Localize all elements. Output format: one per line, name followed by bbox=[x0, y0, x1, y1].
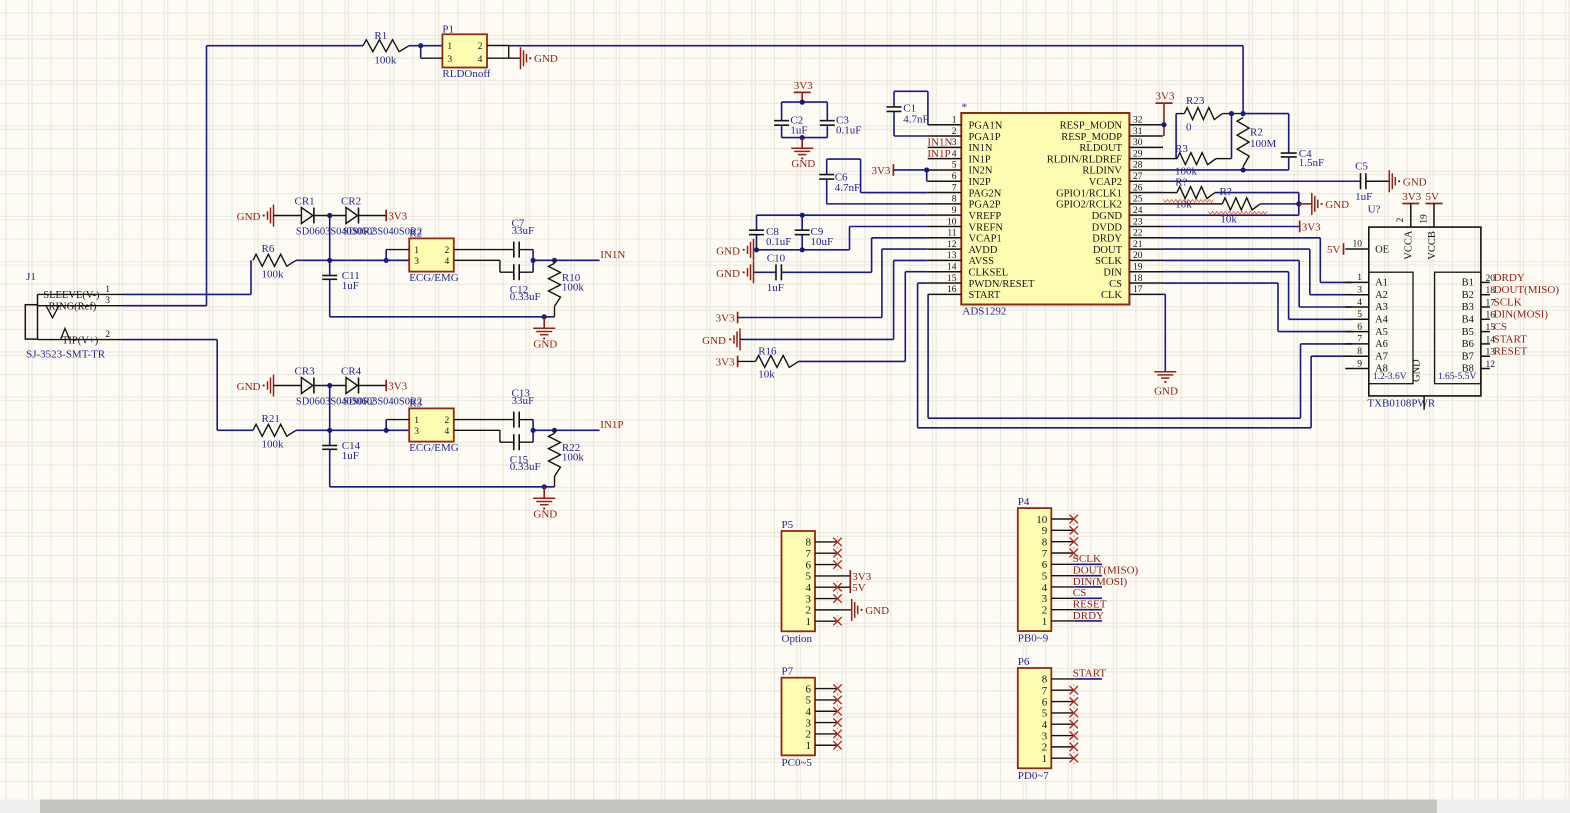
svg-text:A2: A2 bbox=[1375, 290, 1388, 301]
svg-text:6: 6 bbox=[952, 172, 957, 182]
svg-text:R3: R3 bbox=[1175, 143, 1188, 155]
svg-text:A7: A7 bbox=[1375, 351, 1388, 362]
svg-text:7: 7 bbox=[806, 548, 812, 560]
svg-text:3: 3 bbox=[1042, 730, 1048, 742]
svg-text:SLEEVE(V-): SLEEVE(V-) bbox=[43, 290, 100, 301]
svg-text:3V3: 3V3 bbox=[388, 381, 407, 393]
svg-text:A4: A4 bbox=[1375, 315, 1389, 326]
svg-text:33uF: 33uF bbox=[512, 225, 535, 237]
svg-text:R3: R3 bbox=[409, 398, 422, 410]
svg-text:RING(Ref): RING(Ref) bbox=[49, 301, 97, 312]
svg-text:DOUT(MISO): DOUT(MISO) bbox=[1073, 564, 1139, 576]
svg-text:3: 3 bbox=[1042, 593, 1048, 605]
svg-text:3V3: 3V3 bbox=[388, 211, 407, 223]
svg-text:ECG/EMG: ECG/EMG bbox=[409, 442, 459, 454]
svg-text:1uF: 1uF bbox=[342, 450, 359, 462]
svg-text:10k: 10k bbox=[758, 368, 775, 380]
svg-text:START: START bbox=[969, 290, 1001, 301]
svg-text:GND: GND bbox=[237, 211, 261, 223]
svg-text:29: 29 bbox=[1133, 149, 1143, 159]
svg-text:2: 2 bbox=[806, 605, 812, 617]
svg-text:6: 6 bbox=[806, 683, 812, 695]
svg-text:PGA2P: PGA2P bbox=[969, 200, 1001, 211]
svg-text:R23: R23 bbox=[1186, 95, 1205, 107]
svg-text:4: 4 bbox=[444, 427, 449, 437]
svg-text:R6: R6 bbox=[262, 243, 275, 255]
svg-text:5V: 5V bbox=[1327, 244, 1341, 256]
svg-text:1: 1 bbox=[1042, 616, 1048, 628]
svg-text:P4: P4 bbox=[1018, 496, 1030, 508]
svg-text:R21: R21 bbox=[262, 413, 280, 425]
svg-text:17: 17 bbox=[1133, 285, 1143, 295]
svg-text:3: 3 bbox=[414, 427, 419, 437]
svg-text:DRDY: DRDY bbox=[1494, 272, 1525, 284]
svg-text:C10: C10 bbox=[767, 253, 786, 265]
svg-text:1uF: 1uF bbox=[1355, 191, 1372, 203]
svg-text:6: 6 bbox=[1042, 696, 1048, 708]
svg-text:9: 9 bbox=[1357, 359, 1362, 369]
svg-text:R?: R? bbox=[1220, 186, 1232, 198]
svg-text:1: 1 bbox=[414, 246, 419, 256]
svg-text:VCCA: VCCA bbox=[1404, 230, 1415, 260]
svg-text:3: 3 bbox=[1357, 286, 1362, 296]
svg-text:IN1P: IN1P bbox=[927, 148, 950, 160]
svg-text:4: 4 bbox=[806, 582, 812, 594]
svg-text:7: 7 bbox=[1042, 548, 1048, 560]
svg-text:A8: A8 bbox=[1375, 364, 1388, 375]
svg-text:GPIO1/RCLK1: GPIO1/RCLK1 bbox=[1056, 188, 1122, 199]
svg-text:28: 28 bbox=[1133, 161, 1143, 171]
svg-text:B2: B2 bbox=[1462, 290, 1474, 301]
svg-text:4.7nF: 4.7nF bbox=[903, 113, 928, 125]
svg-text:6: 6 bbox=[1042, 559, 1048, 571]
svg-text:21: 21 bbox=[1133, 240, 1143, 250]
svg-text:1: 1 bbox=[952, 116, 957, 126]
svg-text:*: * bbox=[962, 102, 968, 114]
svg-text:Option: Option bbox=[782, 633, 813, 645]
svg-text:1uF: 1uF bbox=[790, 124, 807, 136]
svg-text:3V3: 3V3 bbox=[716, 356, 735, 368]
svg-text:3: 3 bbox=[105, 296, 110, 306]
svg-text:2: 2 bbox=[1042, 742, 1048, 754]
svg-text:VCAP1: VCAP1 bbox=[969, 234, 1002, 245]
svg-text:2: 2 bbox=[478, 42, 483, 52]
svg-text:SCLK: SCLK bbox=[1494, 296, 1522, 308]
svg-text:3V3: 3V3 bbox=[1402, 191, 1421, 203]
svg-text:ADS1292: ADS1292 bbox=[962, 306, 1006, 318]
svg-text:9: 9 bbox=[1042, 525, 1048, 537]
svg-text:22: 22 bbox=[1133, 229, 1143, 239]
svg-text:CR1: CR1 bbox=[295, 195, 315, 207]
svg-text:27: 27 bbox=[1133, 172, 1143, 182]
svg-text:33uF: 33uF bbox=[512, 395, 535, 407]
svg-text:1uF: 1uF bbox=[767, 282, 784, 294]
svg-text:GPIO2/RCLK2: GPIO2/RCLK2 bbox=[1056, 200, 1122, 211]
svg-text:1.5nF: 1.5nF bbox=[1299, 157, 1324, 169]
svg-text:DVDD: DVDD bbox=[1092, 222, 1123, 233]
svg-text:DRDY: DRDY bbox=[1092, 234, 1122, 245]
svg-text:4: 4 bbox=[806, 706, 812, 718]
svg-text:C5: C5 bbox=[1355, 161, 1368, 173]
svg-text:24: 24 bbox=[1133, 206, 1143, 216]
svg-text:1uF: 1uF bbox=[342, 280, 359, 292]
svg-text:DIN: DIN bbox=[1103, 268, 1122, 279]
svg-text:9: 9 bbox=[952, 206, 957, 216]
svg-text:SCLK: SCLK bbox=[1095, 256, 1122, 267]
svg-text:6: 6 bbox=[806, 559, 812, 571]
svg-text:TIP(V+): TIP(V+) bbox=[62, 335, 99, 346]
svg-text:8: 8 bbox=[1042, 674, 1048, 686]
svg-text:12: 12 bbox=[947, 240, 957, 250]
svg-text:20: 20 bbox=[1133, 251, 1143, 261]
svg-text:5: 5 bbox=[806, 571, 812, 583]
svg-text:3V3: 3V3 bbox=[852, 571, 871, 583]
svg-text:4.7nF: 4.7nF bbox=[835, 182, 860, 194]
svg-text:8: 8 bbox=[1042, 536, 1048, 548]
svg-text:CS: CS bbox=[1073, 587, 1086, 599]
svg-text:B4: B4 bbox=[1462, 315, 1475, 326]
svg-text:3: 3 bbox=[447, 55, 452, 65]
svg-text:RLDIN/RLDREF: RLDIN/RLDREF bbox=[1047, 154, 1122, 165]
svg-text:15: 15 bbox=[947, 274, 957, 284]
svg-text:PAG2N: PAG2N bbox=[969, 188, 1002, 199]
svg-text:1: 1 bbox=[806, 616, 812, 628]
svg-text:8: 8 bbox=[1357, 347, 1362, 357]
svg-text:AVDD: AVDD bbox=[969, 245, 998, 256]
svg-text:IN1P: IN1P bbox=[600, 419, 623, 431]
svg-text:0: 0 bbox=[1186, 122, 1192, 134]
svg-text:IN1N: IN1N bbox=[927, 137, 952, 149]
svg-text:R2: R2 bbox=[409, 228, 422, 240]
svg-text:B6: B6 bbox=[1462, 339, 1474, 350]
svg-text:18: 18 bbox=[1133, 274, 1143, 284]
svg-text:4: 4 bbox=[1042, 582, 1048, 594]
svg-text:B8: B8 bbox=[1462, 364, 1474, 375]
svg-text:1: 1 bbox=[105, 285, 110, 295]
svg-text:TXB0108PWR: TXB0108PWR bbox=[1367, 397, 1436, 409]
svg-text:RESET: RESET bbox=[1494, 346, 1528, 358]
svg-text:100k: 100k bbox=[562, 452, 585, 464]
svg-text:4: 4 bbox=[952, 149, 957, 159]
svg-text:8: 8 bbox=[806, 537, 812, 549]
svg-text:DIN(MOSI): DIN(MOSI) bbox=[1073, 576, 1128, 588]
svg-text:GND: GND bbox=[1325, 199, 1349, 211]
svg-text:30: 30 bbox=[1133, 138, 1143, 148]
svg-text:AVSS: AVSS bbox=[969, 256, 995, 267]
svg-text:PGA1P: PGA1P bbox=[969, 132, 1001, 143]
svg-text:4: 4 bbox=[1357, 298, 1362, 308]
svg-text:A5: A5 bbox=[1375, 327, 1388, 338]
svg-text:A6: A6 bbox=[1375, 339, 1388, 350]
svg-text:1: 1 bbox=[414, 416, 419, 426]
svg-text:10: 10 bbox=[1353, 239, 1363, 249]
svg-text:RESP_MODN: RESP_MODN bbox=[1060, 121, 1123, 132]
svg-text:R?: R? bbox=[1175, 177, 1187, 189]
svg-text:2: 2 bbox=[1042, 604, 1048, 616]
svg-text:GND: GND bbox=[716, 245, 740, 257]
svg-text:RESP_MODP: RESP_MODP bbox=[1061, 132, 1122, 143]
svg-text:DGND: DGND bbox=[1092, 211, 1123, 222]
svg-text:SJ-3523-SMT-TR: SJ-3523-SMT-TR bbox=[26, 348, 106, 360]
svg-text:8: 8 bbox=[952, 195, 957, 205]
svg-text:IN2P: IN2P bbox=[969, 177, 991, 188]
svg-text:IN1P: IN1P bbox=[969, 154, 991, 165]
svg-text:R16: R16 bbox=[758, 346, 777, 358]
svg-text:IN1N: IN1N bbox=[969, 143, 993, 154]
svg-text:GND: GND bbox=[702, 335, 726, 347]
svg-text:GND: GND bbox=[533, 508, 557, 520]
svg-text:PB0~9: PB0~9 bbox=[1018, 633, 1049, 645]
svg-text:OE: OE bbox=[1375, 245, 1389, 256]
svg-text:A3: A3 bbox=[1375, 302, 1388, 313]
svg-text:GND: GND bbox=[716, 268, 740, 280]
svg-text:VREFP: VREFP bbox=[969, 211, 1002, 222]
svg-text:14: 14 bbox=[947, 263, 957, 273]
svg-text:1: 1 bbox=[447, 42, 452, 52]
svg-text:J1: J1 bbox=[26, 271, 36, 283]
svg-text:16: 16 bbox=[947, 285, 957, 295]
svg-text:PC0~5: PC0~5 bbox=[782, 757, 813, 769]
svg-text:P5: P5 bbox=[782, 519, 794, 531]
svg-text:31: 31 bbox=[1133, 127, 1143, 137]
svg-text:26: 26 bbox=[1133, 183, 1143, 193]
svg-text:B3: B3 bbox=[1462, 302, 1474, 313]
svg-text:5: 5 bbox=[952, 161, 957, 171]
svg-text:2: 2 bbox=[952, 127, 957, 137]
svg-text:ECG/EMG: ECG/EMG bbox=[409, 272, 459, 284]
svg-text:100k: 100k bbox=[374, 54, 397, 66]
svg-text:RLDINV: RLDINV bbox=[1082, 166, 1122, 177]
svg-text:5V: 5V bbox=[1426, 191, 1440, 203]
svg-text:3: 3 bbox=[414, 257, 419, 267]
svg-text:VCAP2: VCAP2 bbox=[1089, 177, 1122, 188]
svg-text:GND: GND bbox=[533, 338, 557, 350]
svg-text:3V3: 3V3 bbox=[794, 80, 813, 92]
svg-text:23: 23 bbox=[1133, 217, 1143, 227]
svg-text:R2: R2 bbox=[1250, 127, 1263, 139]
svg-text:GND: GND bbox=[791, 158, 815, 170]
svg-text:P7: P7 bbox=[782, 666, 794, 678]
svg-text:25: 25 bbox=[1133, 195, 1143, 205]
svg-text:U?: U? bbox=[1368, 203, 1381, 215]
svg-text:7: 7 bbox=[952, 183, 957, 193]
svg-text:CR4: CR4 bbox=[341, 365, 362, 377]
svg-text:4: 4 bbox=[444, 257, 449, 267]
svg-text:6: 6 bbox=[1357, 322, 1362, 332]
svg-text:3V3: 3V3 bbox=[716, 313, 735, 325]
svg-text:12: 12 bbox=[1486, 360, 1496, 370]
svg-text:100k: 100k bbox=[562, 282, 585, 294]
svg-text:DOUT(MISO): DOUT(MISO) bbox=[1494, 284, 1560, 296]
svg-text:0.33uF: 0.33uF bbox=[510, 291, 541, 303]
svg-text:19: 19 bbox=[1420, 214, 1430, 224]
svg-text:2: 2 bbox=[444, 246, 449, 256]
svg-text:100k: 100k bbox=[262, 438, 285, 450]
svg-text:2: 2 bbox=[806, 729, 812, 741]
svg-text:IN1N: IN1N bbox=[600, 249, 625, 261]
svg-text:1: 1 bbox=[1357, 273, 1362, 283]
svg-text:10: 10 bbox=[947, 217, 957, 227]
svg-text:GND: GND bbox=[1412, 359, 1423, 382]
svg-text:DOUT: DOUT bbox=[1093, 245, 1123, 256]
svg-text:IN2N: IN2N bbox=[969, 166, 993, 177]
svg-text:A1: A1 bbox=[1375, 278, 1388, 289]
svg-text:0.1uF: 0.1uF bbox=[836, 124, 861, 136]
svg-text:CR2: CR2 bbox=[341, 195, 361, 207]
svg-text:0.1uF: 0.1uF bbox=[766, 236, 791, 248]
svg-text:1: 1 bbox=[806, 740, 812, 752]
svg-text:100M: 100M bbox=[1250, 138, 1277, 150]
svg-text:11: 11 bbox=[947, 229, 956, 239]
svg-text:2: 2 bbox=[444, 416, 449, 426]
svg-text:10: 10 bbox=[1036, 514, 1048, 526]
svg-text:PD0~7: PD0~7 bbox=[1018, 770, 1050, 782]
svg-text:4: 4 bbox=[478, 55, 483, 65]
svg-text:P6: P6 bbox=[1018, 656, 1030, 668]
svg-text:GND: GND bbox=[1403, 176, 1427, 188]
svg-text:RESET: RESET bbox=[1073, 598, 1107, 610]
svg-text:CS: CS bbox=[1109, 279, 1122, 290]
svg-text:7: 7 bbox=[1357, 335, 1362, 345]
svg-text:3: 3 bbox=[806, 717, 812, 729]
svg-text:5: 5 bbox=[806, 695, 812, 707]
svg-text:2: 2 bbox=[1396, 217, 1406, 222]
svg-text:5: 5 bbox=[1042, 708, 1048, 720]
svg-text:4: 4 bbox=[1042, 719, 1048, 731]
svg-text:5: 5 bbox=[1357, 310, 1362, 320]
svg-text:PWDN/RESET: PWDN/RESET bbox=[969, 279, 1036, 290]
svg-text:32: 32 bbox=[1133, 116, 1143, 126]
svg-text:RLDOnoff: RLDOnoff bbox=[442, 68, 490, 80]
svg-text:10k: 10k bbox=[1220, 214, 1237, 226]
svg-text:3: 3 bbox=[806, 593, 812, 605]
svg-text:B7: B7 bbox=[1462, 351, 1474, 362]
svg-text:VCCB: VCCB bbox=[1427, 231, 1438, 260]
svg-text:CS: CS bbox=[1494, 321, 1507, 333]
svg-text:START: START bbox=[1494, 333, 1528, 345]
svg-text:1: 1 bbox=[1042, 753, 1048, 765]
svg-text:10uF: 10uF bbox=[811, 236, 834, 248]
svg-text:5: 5 bbox=[1042, 570, 1048, 582]
svg-text:CLKSEL: CLKSEL bbox=[969, 268, 1009, 279]
svg-text:3: 3 bbox=[952, 138, 957, 148]
svg-text:START: START bbox=[1073, 668, 1107, 680]
svg-text:SCLK: SCLK bbox=[1073, 553, 1101, 565]
svg-text:2: 2 bbox=[105, 330, 110, 340]
svg-text:3V3: 3V3 bbox=[871, 165, 890, 177]
svg-text:CLK: CLK bbox=[1101, 290, 1122, 301]
svg-text:VREFN: VREFN bbox=[969, 222, 1004, 233]
svg-text:B1: B1 bbox=[1462, 278, 1474, 289]
svg-text:13: 13 bbox=[947, 251, 957, 261]
svg-text:B5: B5 bbox=[1462, 327, 1474, 338]
svg-text:19: 19 bbox=[1133, 263, 1143, 273]
svg-text:0.33uF: 0.33uF bbox=[510, 461, 541, 473]
svg-text:RLDOUT: RLDOUT bbox=[1079, 143, 1122, 154]
svg-text:100k: 100k bbox=[262, 268, 285, 280]
svg-text:3V3: 3V3 bbox=[1156, 91, 1175, 103]
svg-text:5V: 5V bbox=[852, 582, 866, 594]
svg-text:GND: GND bbox=[534, 53, 558, 65]
svg-text:R1: R1 bbox=[374, 30, 387, 42]
svg-text:CR3: CR3 bbox=[295, 365, 316, 377]
svg-text:PGA1N: PGA1N bbox=[969, 121, 1003, 132]
svg-text:DIN(MOSI): DIN(MOSI) bbox=[1494, 309, 1549, 321]
svg-text:7: 7 bbox=[1042, 685, 1048, 697]
svg-text:P1: P1 bbox=[442, 24, 454, 36]
svg-text:GND: GND bbox=[865, 605, 889, 617]
svg-text:GND: GND bbox=[237, 381, 261, 393]
svg-text:3V3: 3V3 bbox=[1302, 221, 1321, 233]
svg-text:DRDY: DRDY bbox=[1073, 610, 1104, 622]
svg-text:GND: GND bbox=[1154, 386, 1178, 398]
